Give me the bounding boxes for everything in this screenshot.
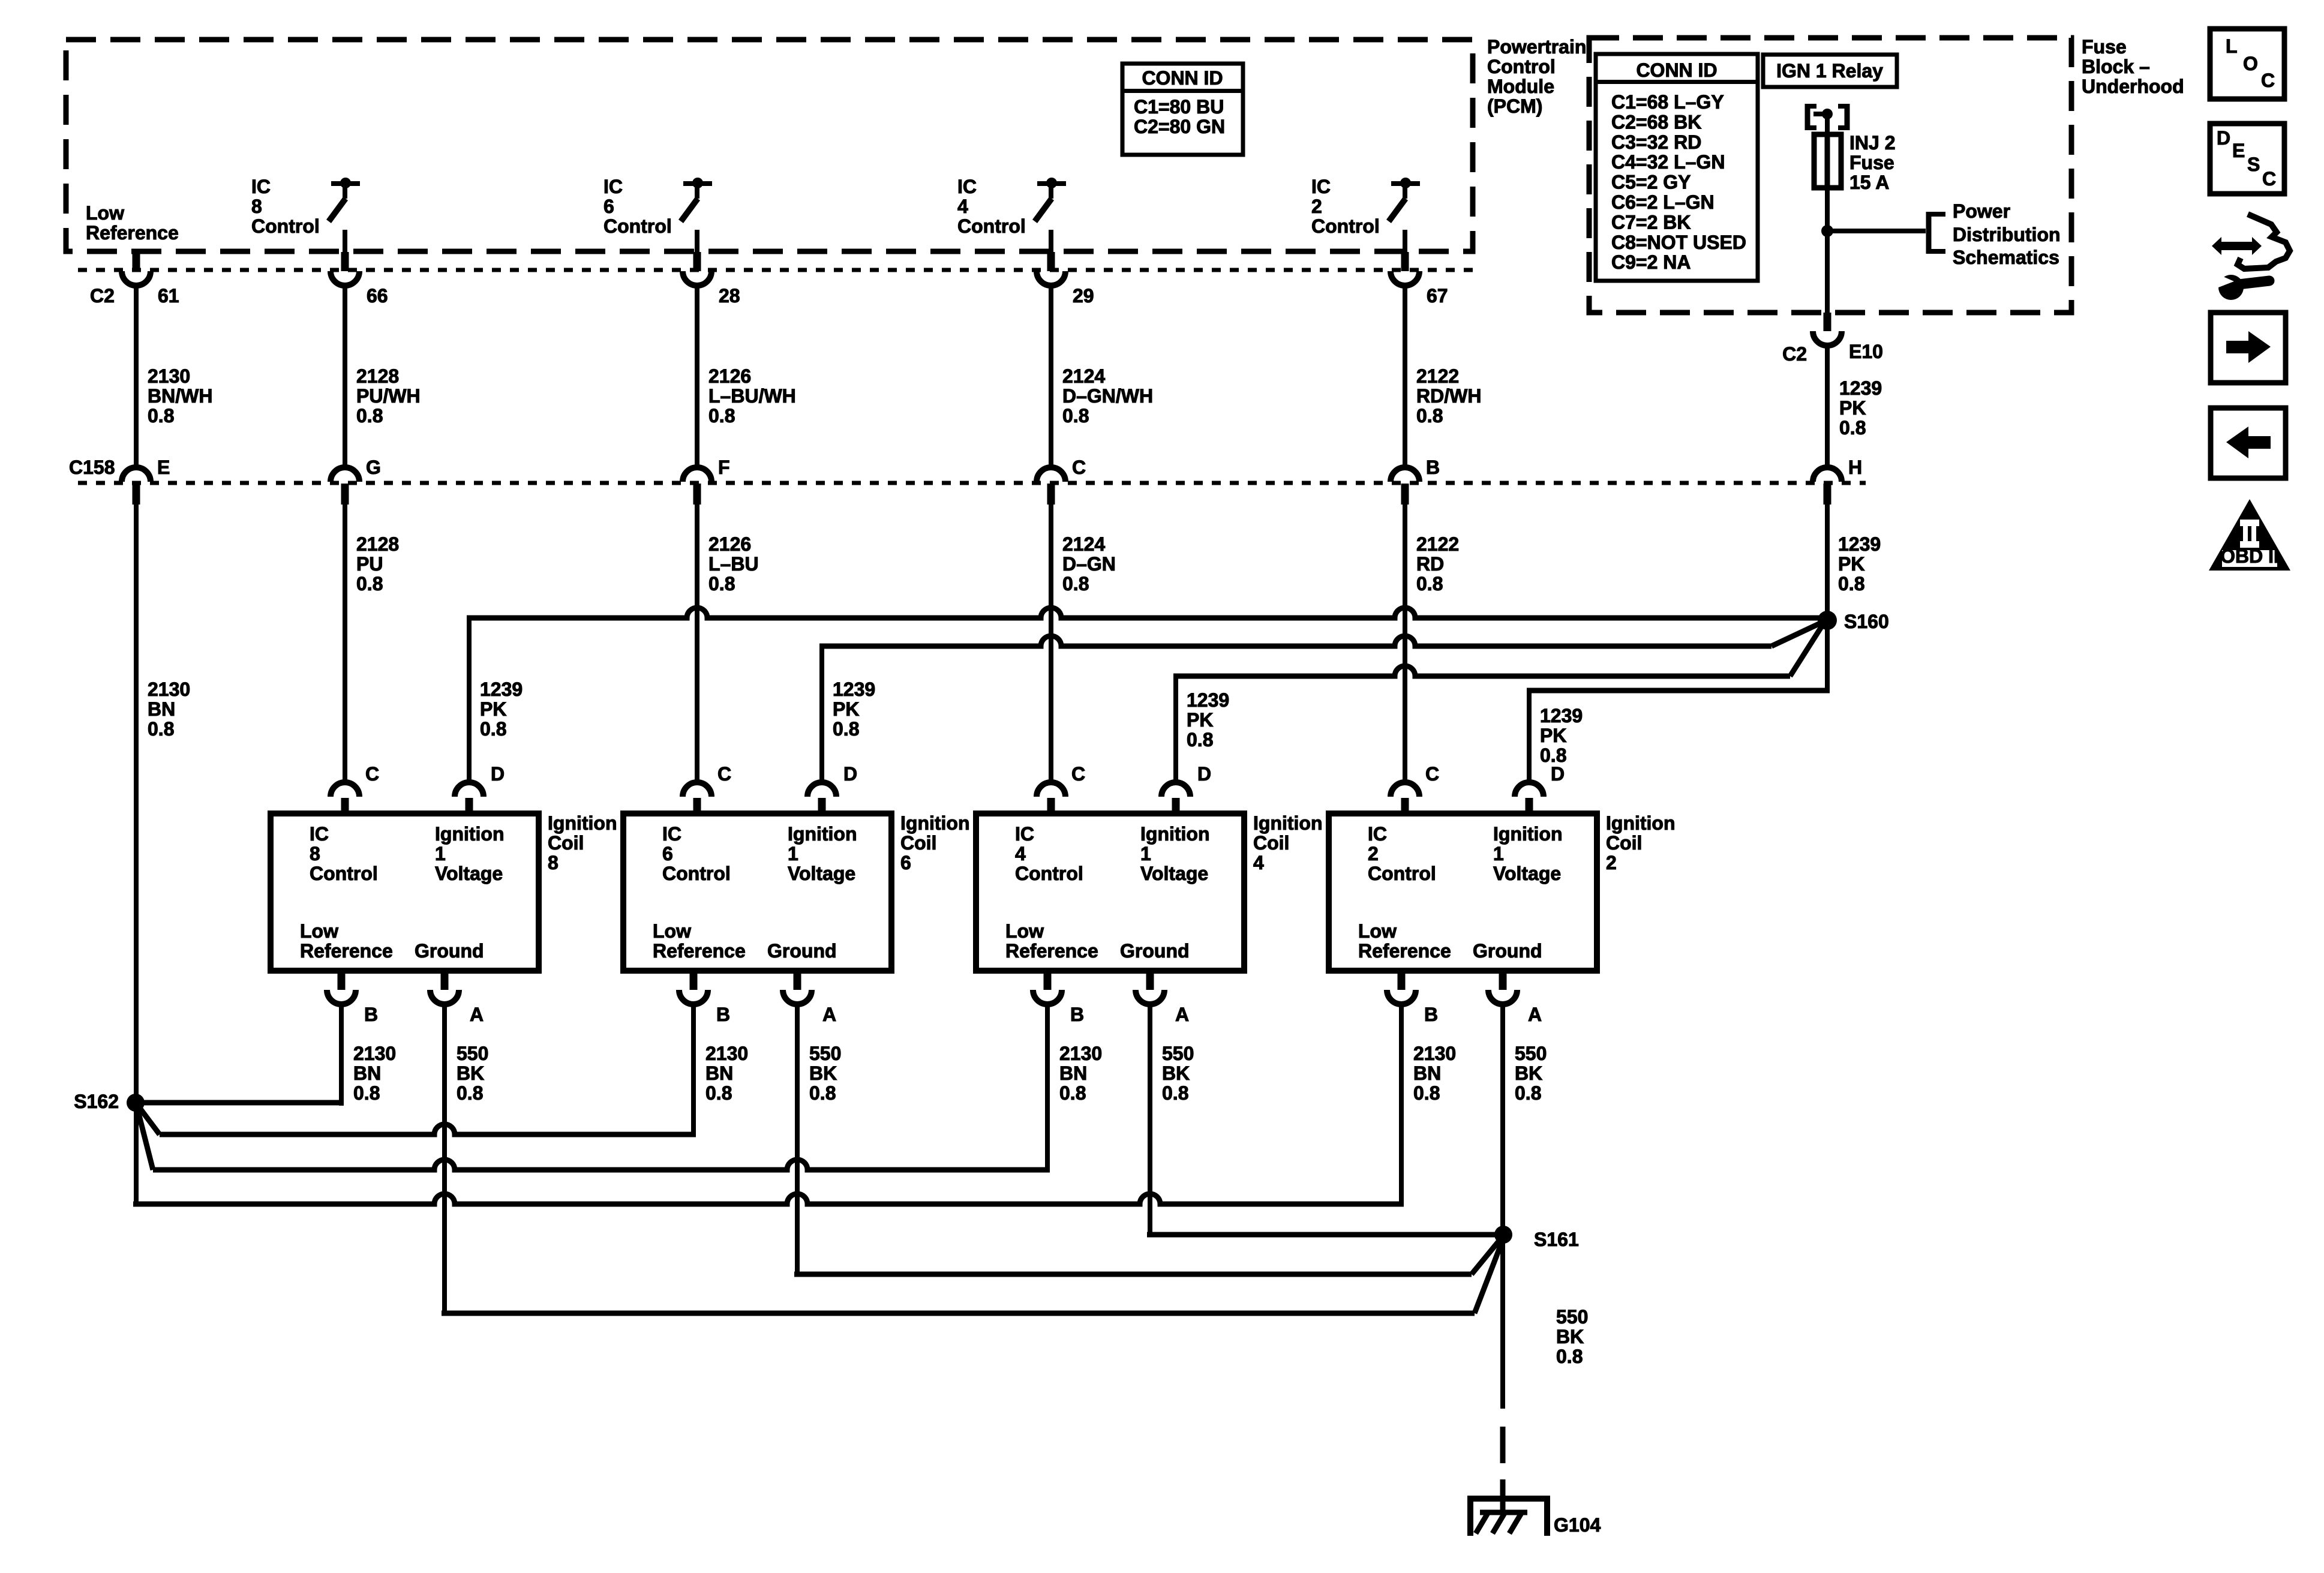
svg-text:Control: Control	[251, 215, 320, 237]
bracket: Power Distribution Schematics reference	[1926, 200, 2061, 268]
ignition coil 8 box	[271, 813, 539, 971]
svg-text:8: 8	[310, 843, 320, 864]
svg-text:2130: 2130	[1413, 1043, 1456, 1064]
svg-text:BK: BK	[809, 1062, 837, 1084]
connector C2 pin 28	[683, 252, 740, 307]
svg-text:C: C	[717, 763, 731, 785]
switch: IC 6 Control driver (PCM internal)	[603, 176, 712, 252]
svg-text:Block –: Block –	[2082, 56, 2150, 77]
svg-text:E: E	[2232, 140, 2245, 161]
svg-text:C2: C2	[1782, 343, 1807, 365]
svg-text:6: 6	[900, 852, 911, 873]
svg-text:2: 2	[1606, 852, 1617, 873]
ground G104	[1467, 1479, 1601, 1536]
svg-text:PK: PK	[1187, 709, 1213, 731]
wire 1239 PK feeder, coil 8 pin D riser to S160	[467, 608, 1827, 784]
svg-text:Low: Low	[86, 202, 124, 224]
switch: IC 4 Control driver (PCM internal)	[957, 176, 1066, 252]
svg-text:Control: Control	[1311, 215, 1380, 237]
fuse block - underhood dashed box	[1589, 38, 2071, 313]
svg-text:Ignition: Ignition	[1493, 823, 1563, 845]
svg-text:PK: PK	[1839, 397, 1866, 419]
icon: back arrow box	[2211, 408, 2286, 478]
svg-text:2126: 2126	[708, 365, 751, 387]
svg-text:0.8: 0.8	[1059, 1082, 1086, 1104]
wire 2126 L–BU/WH 0.8 (C2 pin 28 to C158)	[695, 286, 796, 468]
connector C158 pin E	[122, 457, 170, 505]
svg-text:2: 2	[1368, 843, 1379, 864]
svg-text:550: 550	[1515, 1043, 1547, 1064]
wire: S162 to coil 6 pin B	[138, 1004, 696, 1134]
svg-text:0.8: 0.8	[1062, 573, 1089, 595]
ignition coil 6 pin A	[783, 971, 836, 1025]
wire: S162 vertical to coil 2 pin B	[133, 1004, 1404, 1204]
svg-text:C: C	[1071, 763, 1085, 785]
ignition coil 6 pin D	[807, 763, 857, 813]
svg-text:PU: PU	[356, 553, 383, 575]
svg-text:Ground: Ground	[415, 940, 484, 962]
svg-text:0.8: 0.8	[809, 1082, 836, 1104]
svg-text:0.8: 0.8	[1416, 405, 1443, 427]
ignition coil 8 pin D	[455, 763, 505, 813]
svg-text:Fuse: Fuse	[1849, 152, 1894, 173]
label: Powertrain Control Module (PCM)	[1487, 36, 1586, 117]
svg-text:1239: 1239	[1187, 689, 1229, 711]
svg-text:D: D	[843, 763, 857, 785]
svg-text:Powertrain: Powertrain	[1487, 36, 1586, 58]
svg-text:IC: IC	[1015, 823, 1034, 845]
svg-text:PU/WH: PU/WH	[356, 385, 421, 407]
svg-text:L–BU: L–BU	[708, 553, 759, 575]
svg-text:C3=32 RD: C3=32 RD	[1611, 131, 1701, 153]
connector C158 pin H	[1813, 457, 1862, 505]
fuse INJ 2 Fuse 15 A	[1814, 132, 1895, 193]
wire 2122 RD/WH 0.8 (C2 pin 67 to C158)	[1403, 286, 1481, 468]
svg-text:Voltage: Voltage	[1140, 863, 1208, 884]
svg-text:IC: IC	[662, 823, 681, 845]
svg-text:Voltage: Voltage	[435, 863, 503, 884]
svg-text:O: O	[2243, 53, 2258, 74]
svg-text:S162: S162	[74, 1091, 119, 1112]
ignition coil 6 box	[623, 813, 891, 971]
svg-text:IC: IC	[603, 176, 623, 197]
svg-text:PK: PK	[1540, 725, 1566, 746]
svg-text:2126: 2126	[708, 533, 751, 555]
svg-text:2124: 2124	[1062, 533, 1105, 555]
wire 1239 PK 0.8 (C158 pin H down to splice S160)	[1825, 505, 1881, 691]
label: Ignition Coil 6	[900, 812, 970, 873]
svg-text:Ignition: Ignition	[900, 812, 970, 834]
svg-text:B: B	[716, 1004, 730, 1025]
svg-text:BN: BN	[1059, 1062, 1087, 1084]
svg-text:4: 4	[957, 196, 968, 217]
connector C158 pin C	[1037, 457, 1086, 505]
splice S161	[1494, 1226, 1579, 1250]
ignition coil 4 pin B	[1033, 971, 1084, 1025]
connector C2 pin 67	[1391, 252, 1448, 307]
ignition coil 2 pin D	[1515, 763, 1565, 813]
svg-text:Ground: Ground	[1473, 940, 1542, 962]
wire 2124 D–GN/WH 0.8 (C2 pin 29 to C158)	[1049, 286, 1153, 468]
wire 550 BK 0.8 (coil 6 pin A drop)	[809, 1043, 841, 1104]
svg-text:B: B	[1426, 457, 1440, 478]
svg-text:4: 4	[1253, 852, 1264, 873]
svg-text:C4=32 L–GN: C4=32 L–GN	[1611, 151, 1725, 173]
svg-text:2128: 2128	[356, 533, 399, 555]
svg-text:Low: Low	[1358, 920, 1397, 942]
svg-text:0.8: 0.8	[708, 573, 735, 595]
svg-text:E: E	[157, 457, 170, 478]
svg-text:0.8: 0.8	[708, 405, 735, 427]
svg-text:0.8: 0.8	[480, 718, 506, 740]
wire 2130 BN 0.8 (coil 4 pin B drop)	[1059, 1043, 1102, 1104]
svg-text:4: 4	[1015, 843, 1026, 864]
svg-text:Module: Module	[1487, 76, 1554, 97]
svg-text:1: 1	[435, 843, 446, 864]
wire 1239 PK 0.8 (E10 to C158 pin H)	[1825, 346, 1882, 468]
svg-text:Voltage: Voltage	[1493, 863, 1561, 884]
ignition coil 2 pin C	[1391, 763, 1439, 813]
svg-text:2130: 2130	[353, 1043, 396, 1064]
svg-text:C2=68 BK: C2=68 BK	[1611, 111, 1701, 133]
svg-text:INJ 2: INJ 2	[1849, 132, 1895, 154]
svg-text:2130: 2130	[705, 1043, 748, 1064]
svg-text:0.8: 0.8	[1162, 1082, 1188, 1104]
svg-text:G104: G104	[1554, 1514, 1601, 1536]
svg-text:2130: 2130	[148, 365, 190, 387]
svg-text:D–GN: D–GN	[1062, 553, 1116, 575]
svg-text:Control: Control	[1368, 863, 1436, 884]
svg-text:C: C	[1425, 763, 1439, 785]
splice S160	[1818, 611, 1889, 632]
wire 2128 PU 0.8 (C158 pin G to ignition coil 8 pin C)	[343, 505, 399, 784]
svg-text:A: A	[1528, 1004, 1542, 1025]
svg-text:15 A: 15 A	[1849, 172, 1889, 193]
svg-text:BK: BK	[1162, 1062, 1190, 1084]
svg-text:0.8: 0.8	[1839, 417, 1866, 439]
svg-text:550: 550	[1162, 1043, 1194, 1064]
ignition coil 2 box	[1329, 813, 1597, 971]
svg-text:550: 550	[1556, 1306, 1588, 1328]
svg-text:29: 29	[1073, 285, 1094, 307]
svg-text:C5=2 GY: C5=2 GY	[1611, 172, 1691, 193]
wire 550 BK 0.8 (coil 8 pin A drop)	[457, 1043, 488, 1104]
svg-text:Coil: Coil	[548, 832, 584, 854]
svg-text:C1=80 BU: C1=80 BU	[1134, 96, 1224, 118]
svg-text:2124: 2124	[1062, 365, 1105, 387]
svg-text:1: 1	[1493, 843, 1504, 864]
svg-text:6: 6	[603, 196, 614, 217]
svg-text:L: L	[2226, 35, 2238, 57]
connector C158 dotted line	[78, 481, 1866, 485]
svg-text:Reference: Reference	[653, 940, 746, 962]
svg-text:0.8: 0.8	[1187, 729, 1213, 751]
svg-text:0.8: 0.8	[1556, 1346, 1583, 1367]
svg-text:BK: BK	[457, 1062, 484, 1084]
svg-text:C9=2 NA: C9=2 NA	[1611, 251, 1691, 273]
svg-text:IC: IC	[957, 176, 977, 197]
svg-text:1239: 1239	[1838, 533, 1881, 555]
svg-text:CONN ID: CONN ID	[1142, 67, 1223, 89]
svg-text:28: 28	[719, 285, 740, 307]
svg-text:0.8: 0.8	[457, 1082, 483, 1104]
svg-text:2128: 2128	[356, 365, 399, 387]
svg-text:1: 1	[788, 843, 798, 864]
svg-text:Fuse: Fuse	[2082, 36, 2127, 58]
PCM CONN ID table	[1122, 64, 1243, 155]
svg-text:IC: IC	[1311, 176, 1331, 197]
connector C158 pin B	[1391, 457, 1440, 505]
svg-text:BN: BN	[148, 698, 175, 720]
svg-text:BN: BN	[1413, 1062, 1441, 1084]
label: C2	[90, 285, 115, 307]
svg-text:Control: Control	[662, 863, 731, 884]
svg-text:C2=80 GN: C2=80 GN	[1134, 116, 1225, 137]
svg-text:BN: BN	[353, 1062, 381, 1084]
svg-text:C8=NOT USED: C8=NOT USED	[1611, 232, 1746, 253]
svg-text:0.8: 0.8	[148, 718, 174, 740]
svg-text:Coil: Coil	[1253, 832, 1289, 854]
wire 550 BK 0.8 (coil 2 pin A drop)	[1515, 1043, 1547, 1104]
wire: S162 to coil 8 pin B	[136, 1004, 344, 1106]
svg-text:D: D	[1197, 763, 1211, 785]
svg-text:Control: Control	[1015, 863, 1083, 884]
connector C2 dotted line (PCM 80-way)	[78, 268, 1479, 272]
svg-text:Schematics: Schematics	[1953, 247, 2059, 268]
svg-text:Ignition: Ignition	[548, 812, 617, 834]
svg-text:D–GN/WH: D–GN/WH	[1062, 385, 1153, 407]
icon: forward arrow box	[2211, 313, 2286, 383]
wire: coil 4 pin A to S161	[1147, 1004, 1503, 1238]
icon: OBD II triangle	[2209, 499, 2290, 571]
svg-text:Low: Low	[300, 920, 338, 942]
svg-text:BN: BN	[705, 1062, 733, 1084]
svg-text:Distribution: Distribution	[1953, 224, 2061, 245]
connector C2 pin 61	[122, 252, 179, 307]
wire 2130 BN 0.8 (coil 2 pin B drop)	[1413, 1043, 1456, 1104]
ignition coil 4 pin D	[1161, 763, 1211, 813]
node: Low Reference (PCM internal)	[86, 202, 179, 244]
ignition coil 4 pin A	[1136, 971, 1189, 1025]
svg-text:6: 6	[662, 843, 673, 864]
icon: DESC box	[2210, 124, 2284, 194]
relay contact terminal	[1805, 104, 1850, 137]
svg-text:S: S	[2247, 154, 2260, 175]
wire 1239 PK feeder, coil 2 pin D riser to S160	[1527, 620, 1830, 784]
ignition coil 4 pin C	[1037, 763, 1085, 813]
svg-text:1239: 1239	[1540, 705, 1583, 727]
svg-text:67: 67	[1427, 285, 1448, 307]
svg-text:Reference: Reference	[86, 222, 179, 244]
svg-text:0.8: 0.8	[705, 1082, 732, 1104]
connector C158 pin F	[683, 457, 730, 505]
relay box IGN 1 Relay	[1763, 55, 1897, 87]
label: C158	[69, 457, 115, 478]
svg-text:C: C	[365, 763, 379, 785]
connector C2 pin E10 (fuse block)	[1782, 313, 1883, 365]
svg-text:RD/WH: RD/WH	[1416, 385, 1481, 407]
svg-text:Power: Power	[1953, 200, 2010, 222]
switch: IC 2 Control driver (PCM internal)	[1311, 176, 1420, 252]
svg-text:A: A	[822, 1004, 836, 1025]
label: Ignition Coil 8	[548, 812, 617, 873]
wire 2128 PU/WH 0.8 (C2 pin 66 to C158)	[343, 286, 421, 468]
svg-text:Reference: Reference	[1005, 940, 1098, 962]
svg-text:2122: 2122	[1416, 533, 1459, 555]
svg-text:IC: IC	[1368, 823, 1387, 845]
module box Powertrain Control Module (PCM), dashed outline	[66, 40, 1473, 251]
wire: coil 8 pin A to S161	[442, 1004, 1503, 1316]
svg-text:0.8: 0.8	[1515, 1082, 1541, 1104]
icon: service/diagnostics (arrow and wrench)	[2212, 214, 2290, 300]
svg-text:BK: BK	[1556, 1326, 1584, 1347]
ignition coil 8 pin C	[331, 763, 379, 813]
svg-text:0.8: 0.8	[353, 1082, 380, 1104]
svg-text:B: B	[1070, 1004, 1084, 1025]
connector C158 pin G	[331, 457, 381, 505]
svg-text:S160: S160	[1844, 611, 1889, 632]
svg-text:PK: PK	[833, 698, 859, 720]
svg-text:C2: C2	[90, 285, 115, 307]
svg-text:C158: C158	[69, 457, 115, 478]
svg-text:1: 1	[1140, 843, 1151, 864]
svg-text:Ignition: Ignition	[788, 823, 857, 845]
svg-text:66: 66	[367, 285, 388, 307]
svg-text:2130: 2130	[1059, 1043, 1102, 1064]
wire 2122 RD 0.8 (C158 pin B to ignition coil 2 pin C)	[1403, 505, 1459, 784]
svg-text:D: D	[491, 763, 505, 785]
svg-text:Low: Low	[653, 920, 691, 942]
svg-text:Coil: Coil	[1606, 832, 1642, 854]
svg-text:IC: IC	[310, 823, 329, 845]
wire 550 BK 0.8 (S161 to G104)	[1500, 1306, 1589, 1463]
svg-text:Control: Control	[603, 215, 672, 237]
svg-text:Reference: Reference	[1358, 940, 1451, 962]
wire 2130 BN/WH 0.8 (C2 pin 61 to C158)	[134, 286, 212, 468]
ignition coil 6 pin B	[679, 971, 730, 1025]
svg-text:0.8: 0.8	[1062, 405, 1089, 427]
wire: coil 2 pin A through S161	[1500, 1004, 1505, 1409]
svg-text:Reference: Reference	[300, 940, 393, 962]
svg-text:OBD II: OBD II	[2220, 545, 2279, 567]
svg-text:Low: Low	[1005, 920, 1044, 942]
svg-text:Ground: Ground	[1120, 940, 1190, 962]
wire 1239 PK feeder, coil 4 pin D riser to S160	[1173, 625, 1822, 784]
switch: IC 8 Control driver (PCM internal)	[251, 176, 360, 252]
svg-text:Ground: Ground	[767, 940, 837, 962]
svg-text:BN/WH: BN/WH	[148, 385, 212, 407]
icon: LOC box	[2210, 29, 2284, 99]
svg-text:RD: RD	[1416, 553, 1444, 575]
label: Ignition Coil 2	[1606, 812, 1676, 873]
svg-text:E10: E10	[1849, 341, 1883, 362]
connector C2 pin 29	[1037, 252, 1094, 307]
svg-text:8: 8	[548, 852, 559, 873]
svg-text:Ignition: Ignition	[1140, 823, 1210, 845]
svg-text:Ignition: Ignition	[435, 823, 505, 845]
wire: S162 to coil 4 pin B	[137, 1004, 1050, 1170]
svg-text:BK: BK	[1515, 1062, 1542, 1084]
ignition coil 8 pin A	[430, 971, 484, 1025]
wire 2126 L–BU 0.8 (C158 pin F to ignition coil 6 pin C)	[695, 505, 759, 784]
svg-text:8: 8	[251, 196, 262, 217]
svg-text:(PCM): (PCM)	[1487, 95, 1542, 117]
svg-text:IGN 1 Relay: IGN 1 Relay	[1776, 60, 1883, 82]
ignition coil 2 pin B	[1387, 971, 1438, 1025]
svg-text:C: C	[1072, 457, 1086, 478]
svg-text:61: 61	[158, 285, 179, 307]
svg-text:Control: Control	[957, 215, 1026, 237]
svg-text:0.8: 0.8	[1413, 1082, 1440, 1104]
svg-text:Ignition: Ignition	[1606, 812, 1676, 834]
svg-text:Control: Control	[1487, 56, 1556, 77]
svg-text:H: H	[1848, 457, 1862, 478]
svg-text:Ignition: Ignition	[1253, 812, 1323, 834]
svg-text:2130: 2130	[148, 679, 190, 700]
svg-text:A: A	[470, 1004, 484, 1025]
ignition coil 4 box	[976, 813, 1244, 971]
svg-text:L–BU/WH: L–BU/WH	[708, 385, 796, 407]
label: Ignition Coil 4	[1253, 812, 1323, 873]
svg-text:C7=2 BK: C7=2 BK	[1611, 211, 1691, 233]
wire 2130 BN 0.8 (coil 6 pin B drop)	[705, 1043, 748, 1104]
svg-text:Control: Control	[310, 863, 378, 884]
svg-text:0.8: 0.8	[1416, 573, 1443, 595]
svg-text:0.8: 0.8	[356, 573, 383, 595]
fuse block CONN ID table	[1596, 54, 1758, 281]
wire 550 BK 0.8 (coil 4 pin A drop)	[1162, 1043, 1194, 1104]
ignition coil 8 pin B	[327, 971, 378, 1025]
svg-text:IC: IC	[251, 176, 271, 197]
wire 2130 BN 0.8 (C158 pin E down to splice S162)	[134, 505, 190, 1104]
svg-text:550: 550	[457, 1043, 488, 1064]
ignition coil 2 pin A	[1488, 971, 1542, 1025]
svg-text:C1=68 L–GY: C1=68 L–GY	[1611, 91, 1724, 113]
svg-text:PK: PK	[1838, 553, 1864, 575]
svg-text:1239: 1239	[480, 679, 523, 700]
svg-text:C: C	[2262, 168, 2276, 190]
label: Fuse Block - Underhood	[2082, 36, 2184, 97]
svg-text:0.8: 0.8	[148, 405, 174, 427]
svg-text:G: G	[366, 457, 381, 478]
ignition coil 6 pin C	[683, 763, 731, 813]
wire 2130 BN 0.8 (coil 8 pin B drop)	[353, 1043, 396, 1104]
svg-text:0.8: 0.8	[1838, 573, 1864, 595]
wire 2124 D–GN 0.8 (C158 pin C to ignition coil 4 pin C)	[1049, 505, 1116, 784]
svg-text:D: D	[2217, 127, 2230, 149]
wire 1239 PK feeder, coil 6 pin D riser to S160	[819, 623, 1821, 784]
svg-text:D: D	[1551, 763, 1565, 785]
svg-text:B: B	[1424, 1004, 1438, 1025]
svg-text:Voltage: Voltage	[788, 863, 855, 884]
svg-text:PK: PK	[480, 698, 506, 720]
svg-text:C6=2 L–GN: C6=2 L–GN	[1611, 191, 1715, 213]
svg-text:Coil: Coil	[900, 832, 936, 854]
svg-text:0.8: 0.8	[356, 405, 383, 427]
svg-text:1239: 1239	[1839, 377, 1882, 399]
svg-text:1239: 1239	[833, 679, 875, 700]
svg-text:A: A	[1175, 1004, 1189, 1025]
svg-text:B: B	[364, 1004, 378, 1025]
svg-text:2122: 2122	[1416, 365, 1459, 387]
svg-text:Underhood: Underhood	[2082, 76, 2184, 97]
wire: fuse to E10 with junction	[1821, 188, 1926, 313]
connector C2 pin 66	[331, 252, 388, 307]
splice S162	[74, 1091, 145, 1112]
wire: coil 6 pin A to S161	[794, 1004, 1502, 1277]
svg-text:C: C	[2261, 70, 2275, 91]
svg-text:2: 2	[1311, 196, 1322, 217]
